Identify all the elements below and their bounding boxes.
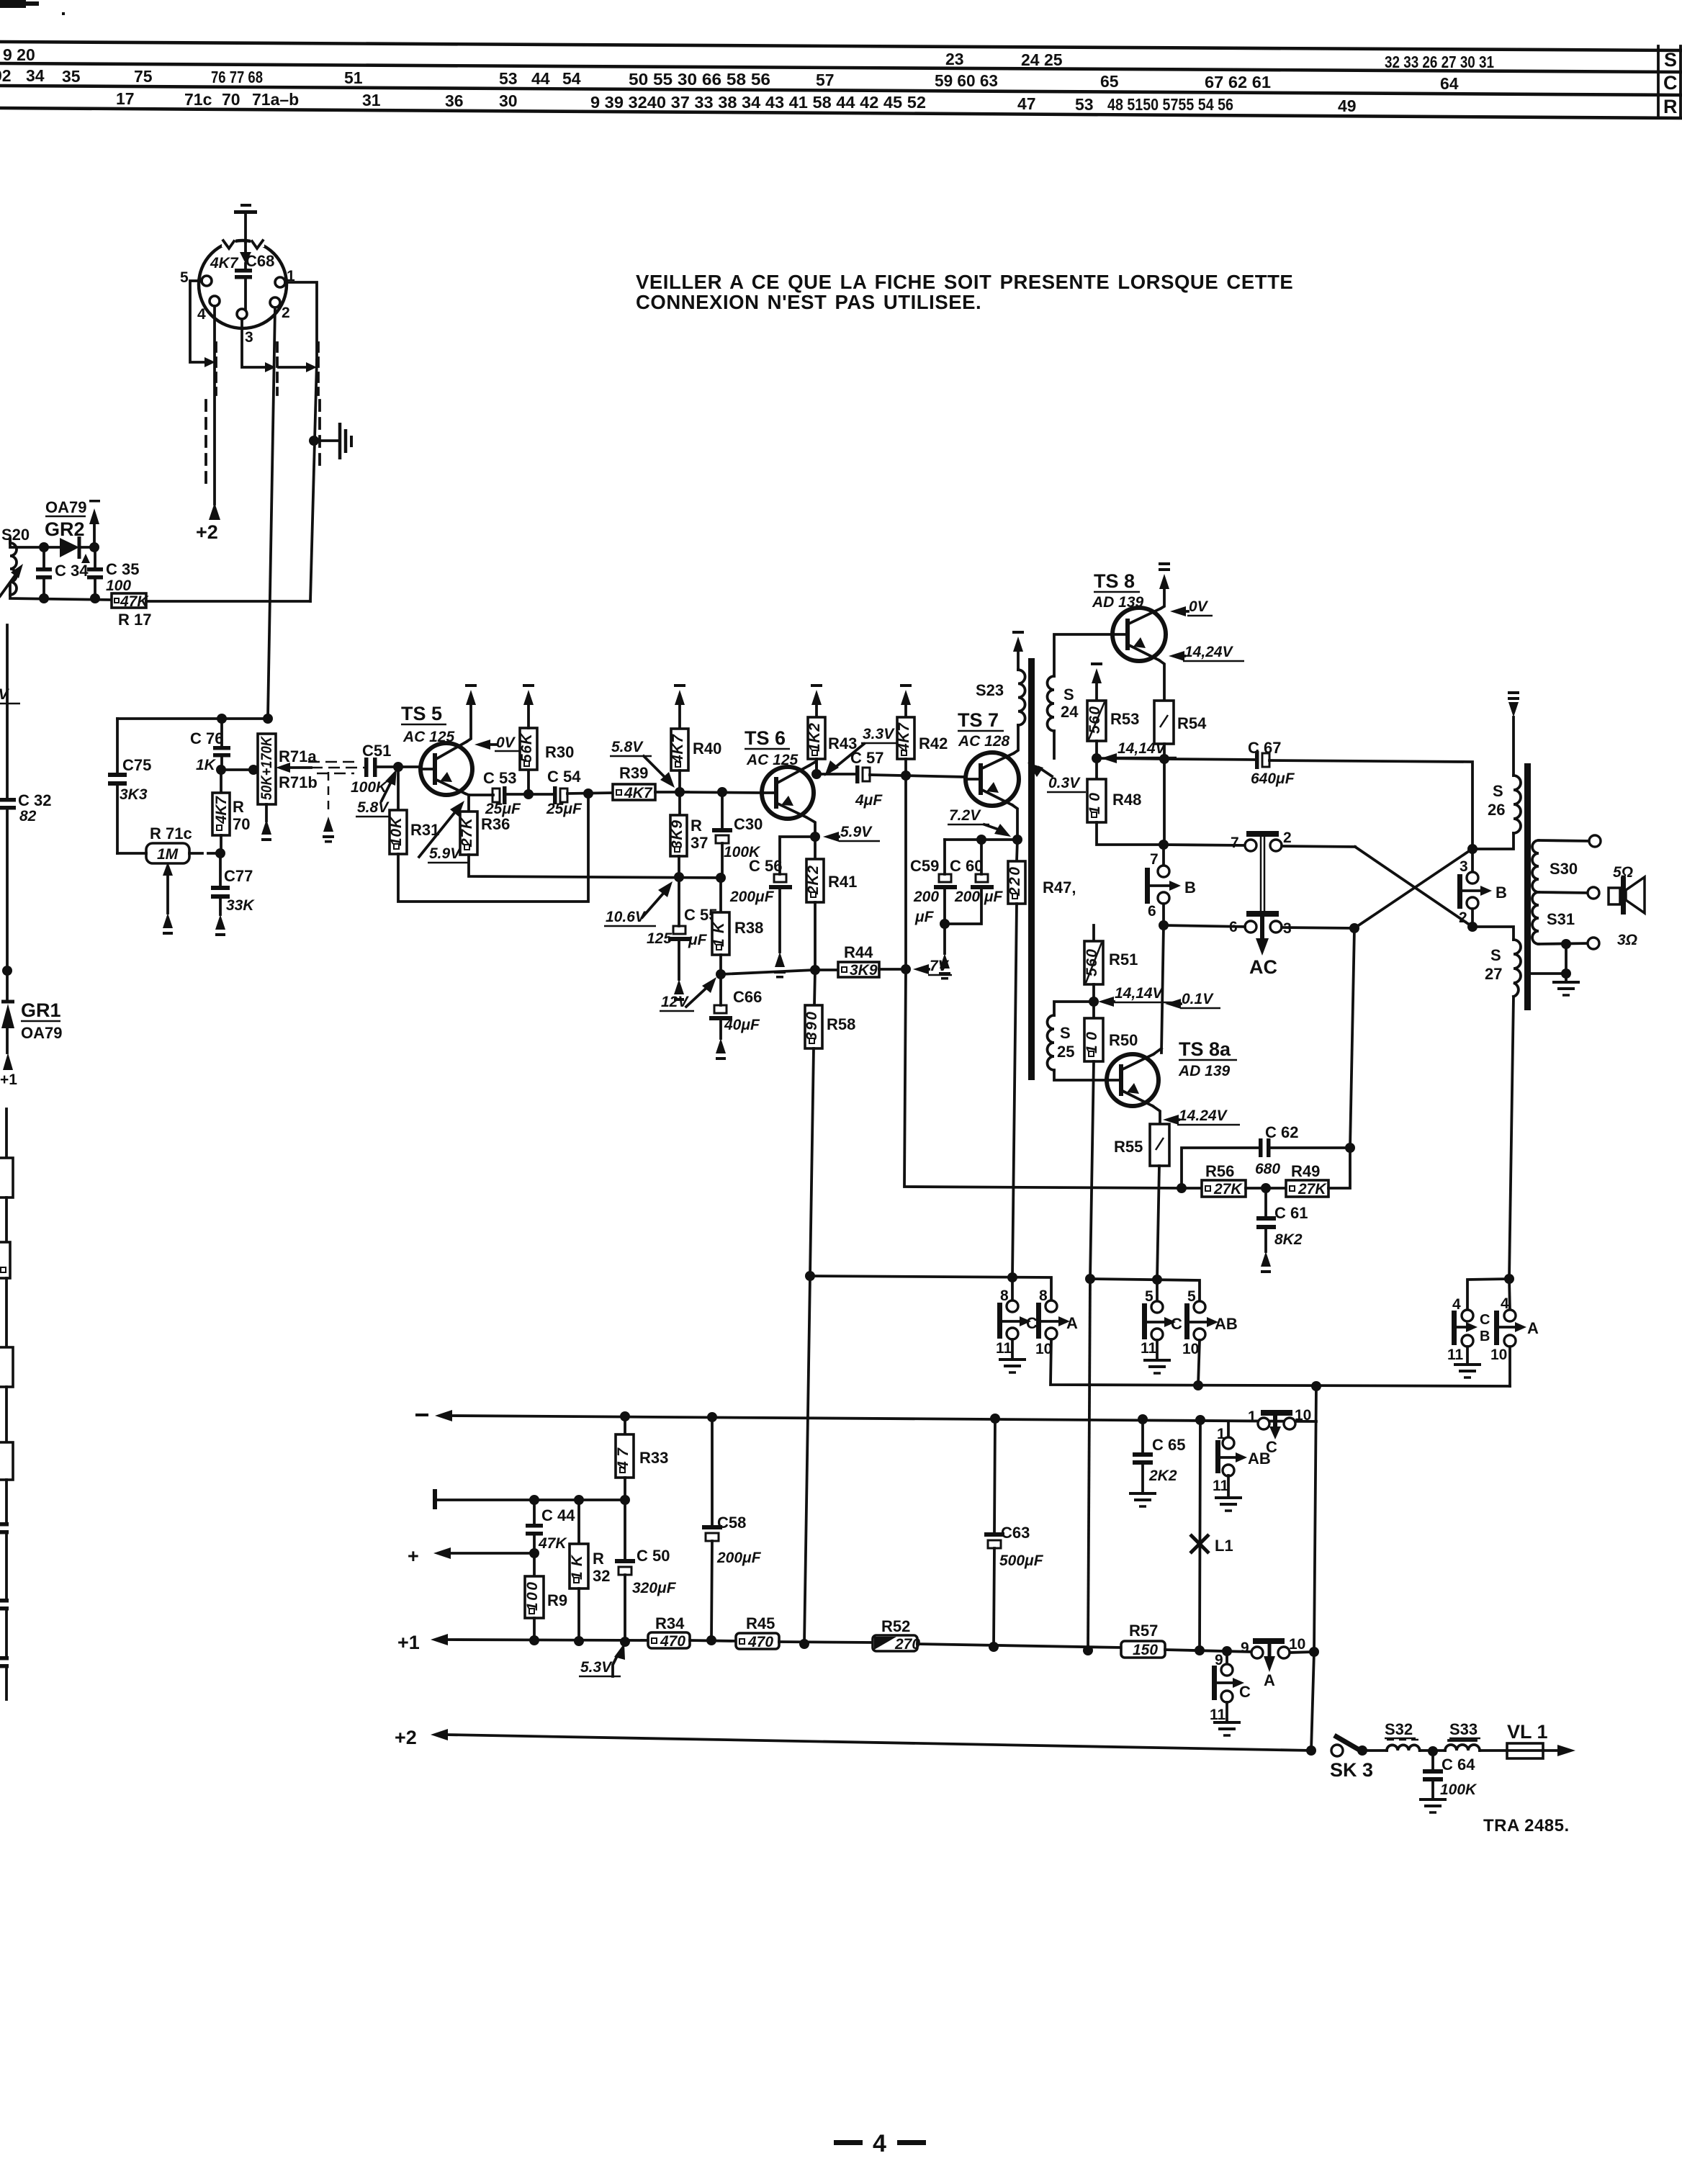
- svg-text:1K: 1K: [711, 921, 727, 947]
- capacitor C63: [984, 1419, 1004, 1647]
- resistor R32 1K: [569, 1500, 588, 1641]
- capacitor C64: [1419, 1751, 1447, 1812]
- wire S27 node: [1472, 927, 1514, 940]
- svg-text:C: C: [1026, 1314, 1038, 1332]
- svg-text:8: 8: [1039, 1288, 1048, 1304]
- svg-text:30: 30: [499, 91, 518, 110]
- svg-text:17: 17: [116, 89, 135, 108]
- node TS6 collector: [811, 769, 822, 779]
- contact 6 (pair): [1229, 919, 1256, 935]
- TS8a emitter wire: [1153, 1106, 1160, 1124]
- wire C76 node to R70: [220, 770, 222, 793]
- svg-text:470: 470: [660, 1633, 685, 1650]
- coil S33: [1445, 1745, 1480, 1751]
- contact 9 (C group): [1215, 1651, 1233, 1676]
- S20 adjust arrowhead: [11, 564, 23, 578]
- svg-text:37: 37: [691, 834, 708, 852]
- TS7 emitter wire: [1012, 805, 1017, 840]
- wire R47 down to switch bus: [1012, 904, 1017, 1277]
- diode GR1: [1, 971, 14, 1053]
- svg-text:R52: R52: [881, 1617, 910, 1635]
- node C59/C60 ground: [940, 919, 950, 929]
- potentiometer R71a/R71b 50K+170K: [258, 734, 276, 804]
- earth ground (speaker return): [1552, 974, 1580, 995]
- svg-text:R50: R50: [1109, 1031, 1138, 1049]
- resistor R34 470: [648, 1632, 690, 1650]
- node C58 top: [707, 1412, 717, 1422]
- wire R52 to R57: [917, 1644, 1121, 1648]
- svg-text:12V: 12V: [661, 994, 689, 1010]
- contact 8 (right): [1039, 1288, 1057, 1312]
- wire 5-bus down to +1 rail: [1088, 1279, 1090, 1650]
- wire arrow to diode node: [93, 523, 96, 547]
- label S33: [1449, 1720, 1480, 1738]
- page-edge resistor stub 2: [0, 1242, 10, 1347]
- svg-text:2K2: 2K2: [805, 866, 822, 895]
- resistor R45 470: [736, 1633, 779, 1650]
- wire C54 to R39: [567, 793, 613, 794]
- crossover wire A: [1355, 847, 1472, 927]
- svg-text:4: 4: [873, 2130, 886, 2157]
- svg-text:C 65: C 65: [1152, 1436, 1185, 1454]
- svg-text:TS 6: TS 6: [745, 727, 786, 749]
- svg-text:3: 3: [245, 329, 253, 346]
- resistor R57 150: [1121, 1641, 1165, 1658]
- svg-text:1: 1: [1248, 1408, 1256, 1425]
- svg-text:S: S: [1490, 946, 1501, 964]
- svg-text:14,24V: 14,24V: [1184, 644, 1234, 660]
- svg-text:C30: C30: [734, 815, 763, 833]
- socket dashed line pin1: [317, 343, 320, 395]
- capacitor C60: [945, 840, 994, 924]
- table row R numbers: [116, 89, 1357, 115]
- node C62 branch: [1177, 1183, 1187, 1193]
- capacitor C61: [1256, 1188, 1276, 1273]
- svg-text:10: 10: [1182, 1341, 1199, 1357]
- 7V measurement: [913, 958, 952, 975]
- wire emitter to R36: [467, 795, 470, 812]
- svg-text:S: S: [1493, 782, 1503, 800]
- R42 supply arrow: [900, 684, 912, 705]
- svg-text:5: 5: [1145, 1288, 1153, 1305]
- node X lower-left: [1349, 923, 1359, 933]
- wire R17 to pin1 line: [146, 600, 310, 603]
- svg-text:1K: 1K: [196, 757, 217, 773]
- node TS5 base: [393, 762, 403, 772]
- contact 5 (right): [1187, 1288, 1205, 1313]
- svg-text:5.9V: 5.9V: [429, 845, 462, 862]
- svg-text:71c: 71c: [184, 90, 212, 109]
- svg-text:4K7: 4K7: [896, 722, 912, 752]
- svg-text:100: 100: [524, 1582, 541, 1611]
- wire S32 to C64 node: [1420, 1749, 1445, 1752]
- svg-text:R47‚: R47‚: [1043, 878, 1076, 896]
- mid tie rail: [435, 1489, 625, 1509]
- svg-text:2: 2: [1459, 909, 1467, 926]
- svg-text:R49: R49: [1291, 1162, 1320, 1180]
- resistor R9 100: [524, 1553, 544, 1640]
- svg-text:SK 3: SK 3: [1330, 1759, 1373, 1781]
- page-edge resistor stub 1: [0, 1109, 13, 1242]
- capacitor C54: [553, 786, 567, 804]
- svg-text:0V: 0V: [496, 734, 516, 751]
- AC arrow: [1249, 917, 1277, 978]
- contact 4 (left): [1452, 1296, 1473, 1321]
- chassis ground (rotated): [340, 423, 351, 459]
- DIN pin 5: [202, 276, 212, 286]
- svg-text:B: B: [1480, 1329, 1490, 1344]
- capacitor C34: [36, 547, 52, 598]
- contact 5 (left): [1145, 1280, 1163, 1313]
- svg-text:6: 6: [1148, 903, 1156, 920]
- wire pin1 down to R17 line: [285, 282, 317, 360]
- svg-text:OA79: OA79: [21, 1024, 62, 1042]
- node above GR1: [2, 966, 12, 976]
- svg-text:+2: +2: [196, 521, 218, 543]
- +1 rail: [397, 1632, 648, 1653]
- svg-text:4K7: 4K7: [213, 796, 230, 824]
- svg-text:C 53: C 53: [483, 769, 516, 787]
- crossover wire B: [1354, 848, 1473, 928]
- node C60 top: [976, 835, 986, 845]
- svg-text:3: 3: [1460, 858, 1468, 875]
- svg-text:C: C: [1480, 1312, 1490, 1328]
- wire C53 to C54: [507, 793, 553, 796]
- svg-text:C66: C66: [733, 988, 762, 1006]
- svg-text:2: 2: [282, 305, 290, 321]
- +2 rail: [395, 1727, 1311, 1751]
- page number 4: [834, 2130, 926, 2157]
- shield chassis arrow: [323, 817, 334, 843]
- wire R70 to R71c node: [220, 835, 222, 853]
- node below contact 6: [1159, 920, 1169, 930]
- svg-text:26: 26: [1488, 801, 1505, 819]
- coil S25: [1048, 1002, 1107, 1080]
- resistor R38 1K: [711, 878, 729, 974]
- wire 9/10 to feeder: [1289, 1652, 1314, 1653]
- blade AB: [1184, 1303, 1238, 1339]
- wire R42 node down to R56 line: [904, 776, 907, 969]
- svg-text:10: 10: [1295, 1407, 1311, 1424]
- svg-text:11: 11: [996, 1340, 1012, 1357]
- svg-text:34: 34: [26, 66, 45, 85]
- svg-text:5Ω: 5Ω: [1613, 864, 1633, 881]
- socket dashed line pin2: [276, 343, 279, 395]
- svg-text:S31: S31: [1547, 910, 1575, 928]
- wire C62 node up to X node: [1350, 928, 1354, 1148]
- wire between contacts: [279, 366, 306, 369]
- svg-text:C 44: C 44: [541, 1506, 575, 1524]
- table row S numbers: [3, 45, 1494, 71]
- capacitor C65: [1129, 1419, 1156, 1506]
- transistor TS7: [966, 752, 1019, 806]
- svg-text:+2: +2: [395, 1727, 417, 1748]
- svg-text:2K2: 2K2: [1148, 1468, 1177, 1484]
- shield drop dashed: [328, 772, 330, 815]
- secondary tap: [1539, 887, 1599, 899]
- node on pin1 wire: [309, 436, 319, 446]
- label S 27: [1485, 946, 1502, 983]
- bus R50/R55 to contacts 5/5: [1090, 1279, 1200, 1301]
- svg-text:S33: S33: [1449, 1720, 1478, 1738]
- blade C: [997, 1303, 1038, 1339]
- svg-text:R40: R40: [693, 740, 721, 758]
- coil S20: [0, 539, 19, 596]
- wire S24 node to C67: [1097, 758, 1164, 759]
- svg-text:4K7: 4K7: [670, 734, 686, 764]
- svg-text:S20: S20: [1, 526, 30, 544]
- wire R49 up to C62 node: [1328, 1148, 1350, 1188]
- svg-text:C: C: [1239, 1683, 1251, 1701]
- svg-text:R44: R44: [844, 943, 873, 961]
- node R54/C67: [1159, 754, 1169, 764]
- wire to chassis: [314, 439, 338, 442]
- svg-text:C59: C59: [910, 857, 939, 875]
- transistor TS8: [1112, 608, 1166, 661]
- transistor TS8a: [1107, 1054, 1159, 1106]
- page-edge capacitor stub 2: [0, 1599, 9, 1656]
- svg-text:100: 100: [106, 578, 131, 594]
- svg-text:R34: R34: [655, 1614, 685, 1632]
- contact 11 (AB group): [1213, 1465, 1234, 1494]
- wire node to R56: [1182, 1187, 1202, 1190]
- svg-text:100K: 100K: [1440, 1781, 1478, 1798]
- capacitor C58: [702, 1417, 722, 1640]
- svg-text:5V: 5V: [0, 686, 10, 703]
- svg-text:A: A: [1527, 1319, 1539, 1337]
- wire R44 to R42 line: [879, 968, 906, 971]
- resistor R52 270: [873, 1635, 920, 1653]
- svg-text:200μF: 200μF: [729, 889, 775, 905]
- svg-text:B: B: [1496, 884, 1507, 902]
- 10.6V measurement: [604, 881, 673, 926]
- resistor R54: [1154, 701, 1174, 744]
- svg-text:+: +: [408, 1545, 419, 1567]
- label TS7: [958, 709, 1004, 731]
- svg-text:65: 65: [1100, 72, 1119, 91]
- wire contact 3 to X node: [1282, 927, 1354, 928]
- wire emitter to C56: [780, 837, 815, 874]
- cable shield dashed (right): [318, 400, 321, 464]
- svg-text:L1: L1: [1215, 1537, 1233, 1555]
- capacitor C44: [526, 1500, 543, 1553]
- C arrow down: [1266, 1416, 1281, 1456]
- node C76 bottom: [216, 765, 226, 775]
- R40 supply arrow: [674, 684, 685, 705]
- svg-text:11: 11: [1213, 1478, 1229, 1494]
- TS7 collector to S23: [1014, 725, 1018, 753]
- earth under 11: [1215, 1475, 1242, 1511]
- svg-text:200: 200: [913, 889, 939, 905]
- svg-text:47K: 47K: [538, 1535, 567, 1552]
- svg-text:50 55 30 66 58 56: 50 55 30 66 58 56: [629, 70, 770, 89]
- svg-text:C68: C68: [246, 252, 274, 270]
- TS8 base wire to S24: [1054, 634, 1112, 676]
- wire C75 to R71c: [117, 852, 146, 855]
- node C30 top: [717, 787, 727, 797]
- svg-text:+1: +1: [397, 1632, 420, 1653]
- wire C67 to output transformer: [1269, 760, 1472, 849]
- svg-text:27K: 27K: [459, 817, 475, 848]
- svg-text:4K7: 4K7: [210, 255, 239, 271]
- node GR2 anode: [39, 542, 49, 552]
- svg-text:14,14V: 14,14V: [1115, 985, 1164, 1002]
- svg-text:5.8V: 5.8V: [611, 739, 644, 755]
- svg-text:R56: R56: [1205, 1162, 1234, 1180]
- blade C: [1212, 1666, 1251, 1701]
- svg-text:CONNEXION N'EST PAS UTILISEE.: CONNEXION N'EST PAS UTILISEE.: [636, 291, 981, 313]
- svg-text:C 54: C 54: [547, 768, 581, 786]
- S32 dashed core: [1387, 1739, 1420, 1741]
- resistor R47 220: [1007, 840, 1025, 904]
- 0.3V measurement: [1027, 763, 1086, 792]
- resistor R41 2K2: [805, 837, 824, 970]
- svg-text:3K3: 3K3: [120, 786, 148, 803]
- svg-text:44: 44: [531, 69, 550, 88]
- wire contact 10 to lower bus: [1051, 1339, 1510, 1386]
- svg-text:4: 4: [1501, 1295, 1509, 1312]
- svg-text:R30: R30: [545, 743, 574, 761]
- coil S26: [1472, 776, 1521, 849]
- svg-text:5.8V: 5.8V: [357, 799, 390, 816]
- svg-text:150: 150: [1133, 1642, 1158, 1658]
- svg-text:C 76: C 76: [190, 729, 223, 747]
- collector supply arrow: [465, 684, 477, 705]
- svg-text:5: 5: [1187, 1288, 1196, 1305]
- wire R50 down to 5-bus: [1090, 1061, 1094, 1279]
- label S 26: [1488, 782, 1505, 819]
- node R33 top: [620, 1411, 630, 1421]
- svg-text:B: B: [1184, 878, 1196, 896]
- speaker: [1609, 877, 1645, 915]
- wire contact 10 to bus: [1198, 1340, 1200, 1385]
- blade AB: [1215, 1440, 1271, 1473]
- svg-text:R51: R51: [1109, 951, 1138, 969]
- TS5 collector wire up: [467, 704, 471, 742]
- resistor R51 560 (adjustable): [1084, 925, 1103, 1002]
- svg-text:4μF: 4μF: [855, 792, 883, 809]
- node C63 top: [990, 1414, 1000, 1424]
- diode GR2: [60, 536, 94, 559]
- svg-text:C: C: [1266, 1438, 1277, 1456]
- 0.1V measurement: [1165, 991, 1220, 1009]
- capacitor C55: [668, 877, 691, 1001]
- resistor R33 47: [615, 1416, 634, 1500]
- plug contact arrow (pin3 to pin2 line): [265, 362, 276, 372]
- resistor R43 1K2: [806, 704, 825, 774]
- node R42 bottom: [901, 770, 911, 781]
- node S26 junction: [1467, 844, 1478, 854]
- wire R39 to R40 node: [655, 791, 688, 794]
- svg-text:R45: R45: [746, 1614, 775, 1632]
- svg-text:R42: R42: [919, 734, 948, 752]
- DIN pin 1: [275, 277, 285, 287]
- capacitor C77: [211, 853, 230, 936]
- svg-text:VL 1: VL 1: [1507, 1721, 1548, 1743]
- output transformer core: [1524, 763, 1531, 1010]
- svg-text:53: 53: [1075, 95, 1094, 114]
- svg-text:3.3V: 3.3V: [863, 726, 895, 742]
- svg-text:S: S: [1063, 686, 1074, 704]
- wire R34 to R45: [690, 1640, 736, 1641]
- plus rail: [408, 1545, 534, 1567]
- svg-text:R57: R57: [1129, 1622, 1158, 1640]
- TS8 collector terminal arrow: [1159, 562, 1170, 589]
- svg-text:10.6V: 10.6V: [606, 909, 647, 925]
- svg-text:47: 47: [1017, 94, 1036, 113]
- feedback wire R36 to C30 node: [469, 855, 721, 878]
- svg-text:TS 8: TS 8: [1094, 570, 1135, 592]
- svg-text:11: 11: [1210, 1707, 1226, 1723]
- node bus to SK3 feeder: [1311, 1381, 1321, 1391]
- driver transformer core: [1028, 658, 1035, 1080]
- svg-text:125: 125: [647, 930, 672, 947]
- resistor R37 3K9: [669, 792, 687, 877]
- svg-text:R54: R54: [1177, 714, 1207, 732]
- svg-text:680: 680: [1255, 1161, 1280, 1177]
- DIN socket outline: [199, 238, 287, 328]
- resistor R17 47K: [112, 593, 149, 610]
- svg-text:71a–b: 71a–b: [252, 90, 299, 109]
- svg-text:VEILLER A CE QUE LA FICHE SOIT: VEILLER A CE QUE LA FICHE SOIT PRESENTE …: [636, 271, 1293, 293]
- svg-text:R58: R58: [827, 1015, 855, 1033]
- svg-text:27: 27: [1485, 965, 1502, 983]
- 0V measurement: [475, 734, 521, 751]
- contact 7 (TS8 emitter group): [1150, 845, 1169, 877]
- svg-text:C 57: C 57: [850, 749, 883, 767]
- contact 10: [1182, 1329, 1205, 1357]
- svg-text:OA79: OA79: [45, 498, 86, 516]
- wire S33 to VL1: [1480, 1749, 1507, 1752]
- svg-text:220: 220: [1007, 867, 1023, 896]
- svg-text:40μF: 40μF: [724, 1017, 760, 1033]
- svg-text:24 25: 24 25: [1021, 50, 1063, 69]
- contact 11: [1141, 1329, 1163, 1357]
- contact 11 (C group): [1210, 1691, 1233, 1723]
- wire contact 2 to X: [1282, 846, 1355, 847]
- resistor R70 4K7: [212, 793, 230, 835]
- 14,14V measurement (lower): [1098, 985, 1174, 1007]
- label S 24: [1061, 686, 1079, 721]
- svg-text:R: R: [593, 1550, 604, 1568]
- node R30 bottom: [523, 789, 534, 799]
- earth under 11: [999, 1339, 1026, 1372]
- wire contact 2 to S27 node: [1471, 909, 1474, 927]
- label R 70: [233, 798, 250, 833]
- S23 supply arrow: [1012, 631, 1024, 652]
- svg-text:TS 5: TS 5: [401, 703, 442, 724]
- wire pin5 to plug contact: [190, 281, 204, 362]
- switch linkage: [1261, 837, 1264, 912]
- svg-text:AD 139: AD 139: [1178, 1063, 1231, 1079]
- wire bus down to SK3 line: [1311, 1386, 1316, 1751]
- wire contact 10 to bus end: [1508, 1347, 1511, 1386]
- 5.8V measurement (R40 node): [610, 739, 675, 788]
- svg-text:4K7: 4K7: [624, 785, 653, 801]
- svg-text:4: 4: [197, 306, 206, 323]
- cable shield dashed (left): [204, 400, 207, 490]
- node GR2 cathode: [89, 542, 99, 552]
- svg-text:R: R: [691, 817, 702, 835]
- svg-text:C 64: C 64: [1442, 1756, 1475, 1774]
- wire S27 down to 4-group: [1509, 997, 1514, 1279]
- wire R71c to C77 node: [189, 852, 220, 855]
- node C76 top: [217, 714, 227, 724]
- svg-text:75: 75: [134, 67, 153, 86]
- capacitor C57: [855, 765, 870, 783]
- svg-text:GR1: GR1: [21, 999, 61, 1021]
- DIN pin 4: [210, 296, 220, 306]
